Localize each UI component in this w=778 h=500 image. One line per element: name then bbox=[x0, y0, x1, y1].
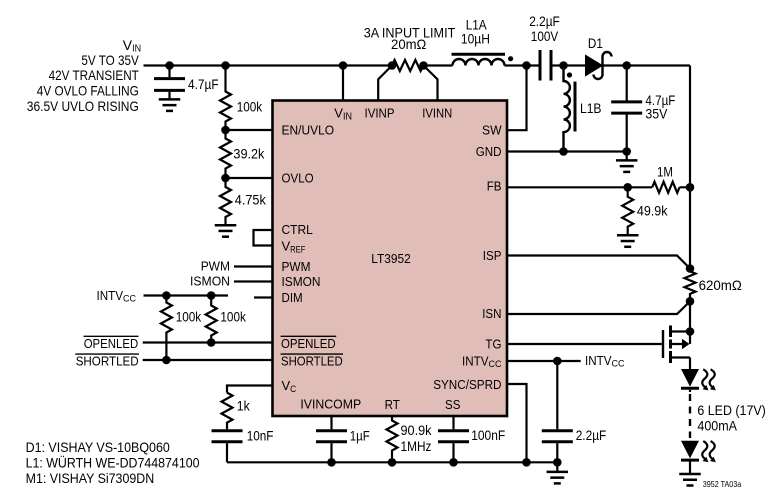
node VIN header text bbox=[27, 37, 141, 114]
node dot intvcc right bbox=[553, 357, 562, 366]
svg-text:10µH: 10µH bbox=[461, 31, 490, 47]
resistor 100k (UVLO top) bbox=[220, 66, 263, 131]
wire INTVCC right bbox=[507, 360, 581, 362]
capacitor 10nF bbox=[212, 428, 274, 463]
wire ISP bbox=[507, 256, 690, 269]
svg-text:EN/UVLO: EN/UVLO bbox=[282, 123, 335, 138]
wire SHORTLED bbox=[143, 359, 273, 361]
node dot intvcc left 2 bbox=[207, 291, 216, 300]
svg-text:INTV: INTV bbox=[462, 354, 489, 369]
svg-text:100nF: 100nF bbox=[471, 427, 505, 443]
svg-text:FB: FB bbox=[487, 179, 502, 194]
svg-text:100k: 100k bbox=[176, 308, 202, 324]
svg-text:PWM: PWM bbox=[201, 259, 230, 274]
wire bottom ground rail bbox=[227, 462, 557, 471]
node dot rail SS bbox=[449, 458, 458, 467]
node dot openled bbox=[207, 338, 216, 347]
svg-text:ISMON: ISMON bbox=[282, 274, 321, 289]
node dot FB rail bbox=[686, 183, 695, 192]
wire OPENLED bbox=[143, 341, 273, 343]
wire ISN bbox=[507, 301, 690, 314]
wire FB bbox=[507, 186, 690, 188]
svg-text:PWM: PWM bbox=[282, 259, 311, 274]
wire ISMON bbox=[234, 280, 273, 282]
svg-text:36.5V UVLO RISING: 36.5V UVLO RISING bbox=[27, 98, 139, 114]
svg-text:L1: WÜRTH WE-DD744874100: L1: WÜRTH WE-DD744874100 bbox=[26, 453, 200, 470]
resistor 4.75k bbox=[220, 178, 267, 224]
wire IVINP leg bbox=[378, 66, 392, 101]
pin label OPENLED (inside, overlined) bbox=[281, 336, 337, 351]
node parts list bbox=[26, 439, 200, 486]
svg-text:SW: SW bbox=[482, 123, 502, 138]
svg-text:ISMON: ISMON bbox=[190, 274, 230, 289]
svg-text:1M: 1M bbox=[657, 164, 673, 180]
svg-text:ISN: ISN bbox=[482, 306, 501, 321]
wire LED to ground bbox=[689, 462, 691, 474]
svg-text:IVINN: IVINN bbox=[422, 106, 452, 121]
node OPENLED label (overlined) bbox=[84, 336, 139, 351]
svg-text:3952 TA03a: 3952 TA03a bbox=[703, 480, 742, 489]
svg-text:4.7µF: 4.7µF bbox=[188, 76, 219, 92]
node dot intvcc left 1 bbox=[162, 291, 171, 300]
wire EN/UVLO bbox=[226, 129, 273, 131]
svg-text:DIM: DIM bbox=[282, 290, 303, 305]
svg-text:IVINCOMP: IVINCOMP bbox=[300, 397, 361, 412]
op-amp U1 IC body LT3952 bbox=[273, 101, 508, 417]
wire INTVCC to 2.2uF bbox=[556, 361, 558, 429]
svg-text:39.2k: 39.2k bbox=[233, 145, 265, 161]
svg-text:90.9k: 90.9k bbox=[401, 422, 433, 438]
svg-text:TG: TG bbox=[485, 337, 501, 352]
resistor 100k (left) bbox=[161, 296, 202, 361]
ground (below 4.75k) bbox=[215, 225, 237, 237]
svg-text:2.2µF: 2.2µF bbox=[529, 13, 560, 29]
capacitor 2.2uF 100V bbox=[529, 13, 560, 80]
node dot EN/UVLO bbox=[221, 126, 230, 135]
node INTVCC label left bbox=[97, 288, 137, 305]
node dot L1B top bbox=[559, 61, 568, 70]
wire TG bbox=[507, 343, 662, 345]
capacitor 1uF bbox=[316, 428, 370, 463]
wire IVINN leg bbox=[424, 66, 438, 101]
svg-text:ISP: ISP bbox=[483, 248, 502, 263]
svg-text:5V TO 35V: 5V TO 35V bbox=[81, 52, 139, 68]
svg-text:SHORTLED: SHORTLED bbox=[281, 354, 343, 369]
svg-text:D1: D1 bbox=[588, 35, 603, 51]
wire OVLO bbox=[226, 177, 273, 179]
ground (bottom rail) bbox=[547, 472, 569, 484]
svg-text:49.9k: 49.9k bbox=[637, 203, 668, 219]
wire DIM stub bbox=[254, 296, 273, 298]
svg-text:1k: 1k bbox=[237, 397, 251, 413]
node dot FB divider bbox=[623, 183, 632, 192]
capacitor 100nF bbox=[438, 427, 505, 462]
wire IVINCOMP bbox=[330, 416, 332, 429]
node dot VIN pin bbox=[339, 61, 348, 70]
node dot ISN bbox=[686, 297, 695, 306]
svg-text:OPENLED: OPENLED bbox=[84, 336, 139, 351]
node dot rail RT bbox=[388, 458, 397, 467]
resistor 100k (right) bbox=[206, 296, 247, 343]
wire CTRL-VREF jumper bbox=[254, 230, 273, 246]
wire INTVCC left bbox=[144, 294, 229, 296]
svg-text:GND: GND bbox=[476, 144, 502, 159]
svg-text:IVINP: IVINP bbox=[365, 106, 395, 121]
wire top rail VIN bbox=[144, 66, 691, 370]
ground (LED string) bbox=[679, 474, 701, 486]
svg-text:1MHz: 1MHz bbox=[401, 438, 432, 454]
svg-text:6 LED (17V): 6 LED (17V) bbox=[697, 402, 765, 418]
resistor 39.2k bbox=[220, 130, 265, 178]
svg-text:10nF: 10nF bbox=[247, 428, 274, 444]
node dot uvlo divider top bbox=[221, 61, 230, 70]
svg-text:4.75k: 4.75k bbox=[235, 192, 267, 208]
wire VIN pin drop bbox=[342, 66, 344, 101]
wire dashed LED string bbox=[689, 390, 691, 392]
svg-text:L1B: L1B bbox=[580, 100, 602, 116]
svg-text:INTV: INTV bbox=[97, 288, 124, 303]
resistor 20mOhm shunt bbox=[364, 25, 456, 72]
LED D2 (top of string) bbox=[681, 369, 716, 390]
node dot 20m left bbox=[388, 61, 397, 70]
svg-text:20mΩ: 20mΩ bbox=[391, 36, 426, 52]
diode D1 schottky bbox=[586, 35, 612, 79]
svg-text:100k: 100k bbox=[237, 98, 263, 114]
node INTVCC label right bbox=[585, 353, 625, 370]
svg-text:CTRL: CTRL bbox=[282, 222, 313, 237]
node dot rail gnd bbox=[553, 458, 562, 467]
ground (below 4.7uF input cap) bbox=[159, 99, 181, 111]
wire GND pin bbox=[507, 150, 627, 152]
svg-text:1µF: 1µF bbox=[350, 428, 370, 444]
resistor RT 90.9k bbox=[387, 416, 433, 462]
svg-text:100k: 100k bbox=[220, 308, 246, 324]
ground (below 49.9k) bbox=[617, 235, 639, 247]
wire SYNC/SPRD bbox=[507, 384, 527, 462]
svg-text:100V: 100V bbox=[531, 28, 559, 44]
svg-text:OVLO: OVLO bbox=[282, 171, 314, 186]
capacitor C-in 4.7uF bbox=[154, 66, 219, 99]
svg-text:CC: CC bbox=[489, 359, 502, 370]
inductor L1A bbox=[452, 17, 514, 66]
svg-text:SHORTLED: SHORTLED bbox=[76, 354, 139, 369]
node dot diode out bbox=[622, 61, 631, 70]
LED D3 (bottom of string) bbox=[681, 441, 716, 462]
wire PWM bbox=[234, 265, 273, 267]
capacitor 2.2uF (INTVCC) bbox=[542, 427, 607, 462]
resistor 1k bbox=[222, 393, 251, 430]
wire SW bbox=[507, 66, 527, 131]
capacitor 4.7uF 35V bbox=[611, 66, 675, 152]
node dot gnd cap bbox=[622, 147, 631, 156]
node dot 20m right bbox=[419, 61, 428, 70]
node dot mosfet source bbox=[686, 327, 695, 336]
svg-text:SS: SS bbox=[445, 397, 461, 412]
node dot ISP bbox=[686, 264, 695, 273]
node dot shortled bbox=[162, 356, 171, 365]
node dot rail SYNC bbox=[522, 458, 531, 467]
svg-text:D1: VISHAY VS-10BQ060: D1: VISHAY VS-10BQ060 bbox=[26, 439, 170, 455]
node dot SW/L1A bbox=[522, 61, 531, 70]
node 6 LED label bbox=[697, 402, 765, 433]
node dot input cap bbox=[165, 61, 174, 70]
svg-text:42V TRANSIENT: 42V TRANSIENT bbox=[49, 67, 140, 83]
node dot L1B bottom bbox=[559, 147, 568, 156]
node SHORTLED label (overlined) bbox=[75, 354, 139, 369]
inductor L1B bbox=[564, 66, 602, 152]
wire VC bbox=[227, 386, 273, 393]
resistor 49.9k bbox=[622, 187, 668, 234]
node dot OVLO bbox=[221, 174, 230, 183]
svg-text:INTV: INTV bbox=[585, 353, 612, 368]
transistor M1 PMOS bbox=[663, 326, 690, 364]
resistor 1M bbox=[652, 164, 679, 193]
svg-text:SYNC/SPRD: SYNC/SPRD bbox=[433, 377, 501, 392]
svg-text:OPENLED: OPENLED bbox=[281, 336, 336, 351]
pin label SHORTLED (inside, overlined) bbox=[281, 354, 343, 369]
svg-text:620mΩ: 620mΩ bbox=[699, 277, 742, 293]
svg-text:LT3952: LT3952 bbox=[371, 251, 411, 266]
resistor 620mOhm bbox=[685, 269, 742, 302]
ground (below 4.7uF 35V) bbox=[616, 152, 638, 172]
svg-text:2.2µF: 2.2µF bbox=[576, 427, 607, 443]
svg-text:4V OVLO FALLING: 4V OVLO FALLING bbox=[37, 82, 139, 98]
svg-text:M1: VISHAY Si7309DN: M1: VISHAY Si7309DN bbox=[26, 470, 155, 486]
svg-text:CC: CC bbox=[123, 294, 136, 305]
svg-text:RT: RT bbox=[385, 397, 400, 412]
wire SS bbox=[452, 416, 454, 429]
svg-text:CC: CC bbox=[612, 359, 625, 370]
svg-text:400mA: 400mA bbox=[697, 417, 737, 433]
node dot rail 1uF bbox=[327, 458, 336, 467]
svg-text:35V: 35V bbox=[645, 106, 668, 122]
